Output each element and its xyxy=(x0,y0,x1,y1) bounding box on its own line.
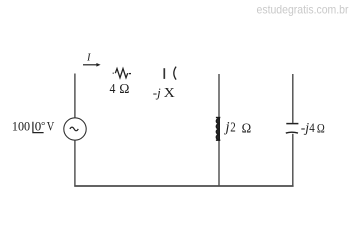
svg-text:V: V xyxy=(47,118,55,133)
svg-text:4: 4 xyxy=(309,120,315,135)
svg-text:Ω: Ω xyxy=(317,121,325,136)
svg-text:estudegratis.com.br: estudegratis.com.br xyxy=(257,2,349,16)
svg-text:°: ° xyxy=(41,120,45,132)
svg-text:2: 2 xyxy=(230,120,236,135)
svg-text:-j: -j xyxy=(301,120,310,135)
svg-text:I: I xyxy=(86,52,91,63)
svg-text:Ω: Ω xyxy=(119,82,129,97)
svg-text:Ω: Ω xyxy=(242,121,252,136)
svg-text:X: X xyxy=(164,86,175,101)
svg-text:-j: -j xyxy=(153,85,161,100)
svg-text:j: j xyxy=(224,120,230,136)
svg-text:100: 100 xyxy=(12,118,30,133)
svg-text:4: 4 xyxy=(110,82,116,97)
